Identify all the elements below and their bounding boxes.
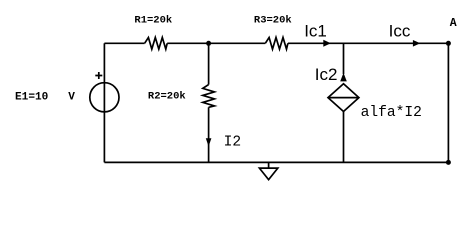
current arrow Ic1 xyxy=(323,40,331,47)
svg-text:E1=10: E1=10 xyxy=(15,91,49,103)
svg-text:R1=20k: R1=20k xyxy=(134,15,172,27)
svg-text:Ic2: Ic2 xyxy=(315,65,338,84)
svg-text:alfa*I2: alfa*I2 xyxy=(361,105,422,121)
wire top left segment xyxy=(104,42,144,44)
resistor R3 xyxy=(265,38,288,50)
plus sign of E1 xyxy=(95,72,102,79)
junction dot bottom right xyxy=(446,160,451,165)
current arrow Icc xyxy=(413,40,420,47)
current arrow I2 xyxy=(206,138,212,146)
svg-text:V: V xyxy=(68,91,75,103)
dependent current source Ic2 diamond xyxy=(328,84,359,112)
voltage source E1 xyxy=(90,83,119,112)
current arrow Ic2 xyxy=(340,73,347,82)
svg-text:Icc: Icc xyxy=(389,21,411,40)
svg-text:R2=20k: R2=20k xyxy=(148,90,186,102)
wire R2 branch lower xyxy=(208,107,210,162)
wire dependent source branch lower xyxy=(343,112,345,163)
wire R2 branch upper xyxy=(208,43,210,84)
wire dependent source branch upper xyxy=(343,43,345,74)
wire left branch xyxy=(103,43,105,162)
ground symbol xyxy=(259,168,277,180)
wire right branch xyxy=(447,43,449,162)
wire top right segment xyxy=(288,42,449,44)
resistor R1 xyxy=(145,38,168,50)
svg-text:I2: I2 xyxy=(224,134,242,150)
svg-text:Ic1: Ic1 xyxy=(304,21,327,40)
resistor R2 xyxy=(203,85,215,108)
ground stub xyxy=(268,162,270,168)
node A junction dot xyxy=(446,41,451,46)
junction node at R2 top xyxy=(206,41,211,46)
svg-text:A: A xyxy=(450,17,457,30)
wire top middle segment xyxy=(167,42,265,44)
svg-text:R3=20k: R3=20k xyxy=(254,15,292,27)
wire bottom segment xyxy=(104,161,448,163)
dependent source midline xyxy=(328,97,359,99)
